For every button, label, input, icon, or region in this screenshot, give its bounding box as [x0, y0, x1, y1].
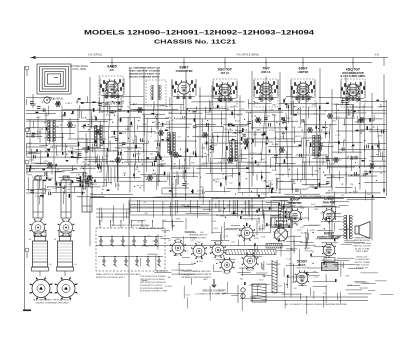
svg-text:33K: 33K — [272, 105, 276, 107]
svg-text:PART S-12763: PART S-12763 — [355, 264, 369, 267]
svg-text:4.7M: 4.7M — [367, 129, 372, 131]
svg-text:C-31: C-31 — [201, 164, 207, 166]
svg-text:R-31: R-31 — [30, 159, 36, 161]
svg-text:CONN. HERE: CONN. HERE — [72, 69, 87, 71]
svg-text:MODELS 12H090–12H091–12H092–12: MODELS 12H090–12H091–12H092–12H093–12H09… — [84, 29, 315, 36]
svg-text:470K: 470K — [117, 154, 123, 156]
svg-text:6.8K: 6.8K — [95, 166, 100, 168]
svg-text:6: 6 — [36, 277, 37, 279]
svg-text:1M: 1M — [256, 165, 259, 167]
svg-text:2.2M: 2.2M — [32, 177, 37, 179]
svg-text:47K: 47K — [345, 275, 349, 277]
svg-text:AVC: AVC — [45, 150, 50, 153]
svg-text:4.7M: 4.7M — [377, 135, 382, 137]
svg-text:R-31: R-31 — [272, 170, 278, 172]
svg-text:47K: 47K — [342, 222, 346, 224]
svg-text:(TOP ROW) FOR 4 PLATES: (TOP ROW) FOR 4 PLATES — [140, 275, 166, 278]
svg-text:(3RD ROW) FOR CATHODE: (3RD ROW) FOR CATHODE — [140, 281, 166, 284]
svg-text:C-12: C-12 — [212, 145, 218, 147]
svg-text:OSC: OSC — [354, 121, 359, 123]
svg-text:OSC: OSC — [269, 110, 274, 112]
svg-text:A.C. LINE: A.C. LINE — [217, 292, 227, 295]
svg-text:1: 1 — [77, 293, 78, 295]
svg-text:SPEAKER FIELD: SPEAKER FIELD — [354, 237, 370, 240]
svg-text:C-31: C-31 — [116, 185, 122, 187]
svg-text:OSC: OSC — [35, 151, 40, 153]
svg-text:6: 6 — [61, 277, 62, 279]
svg-text:R-22: R-22 — [353, 192, 359, 194]
svg-text:(4TH ROW) TO OUTPUT: (4TH ROW) TO OUTPUT — [140, 285, 163, 287]
svg-text:8: 8 — [52, 283, 53, 285]
svg-text:6SQ7: 6SQ7 — [247, 270, 253, 272]
svg-text:CHOKE 1000 OHM: CHOKE 1000 OHM — [353, 243, 371, 245]
svg-text:47K: 47K — [269, 209, 273, 211]
svg-text:6.8K: 6.8K — [276, 193, 281, 195]
svg-text:470K: 470K — [30, 168, 35, 170]
svg-text:6.8K: 6.8K — [174, 255, 179, 257]
svg-text:7: 7 — [70, 277, 71, 279]
svg-text:15K: 15K — [49, 147, 53, 149]
svg-text:33K: 33K — [331, 176, 335, 178]
svg-text:USED AS FILTER: USED AS FILTER — [354, 239, 371, 242]
svg-text:VOL: VOL — [151, 158, 156, 160]
svg-text:455KC: 455KC — [160, 124, 167, 126]
svg-text:455KC: 455KC — [183, 184, 190, 186]
svg-text:47K: 47K — [84, 173, 88, 175]
svg-text:455KC: 455KC — [295, 136, 302, 138]
svg-text:C-12: C-12 — [261, 180, 267, 182]
svg-text:1M: 1M — [194, 156, 197, 158]
svg-text:AVC: AVC — [215, 181, 220, 184]
svg-text:(5TH ROW) B+ BRACKET: (5TH ROW) B+ BRACKET — [140, 287, 164, 290]
svg-text:OSC: OSC — [291, 282, 296, 284]
svg-text:2.2M: 2.2M — [97, 172, 102, 174]
svg-text:10.7MC: 10.7MC — [165, 286, 173, 288]
svg-text:R-22: R-22 — [312, 187, 318, 189]
svg-text:R-31: R-31 — [106, 115, 112, 117]
svg-text:6SH7: 6SH7 — [224, 273, 230, 275]
svg-text:10.7MC: 10.7MC — [197, 136, 205, 138]
svg-text:49-465 12 OHM: 49-465 12 OHM — [355, 248, 370, 250]
svg-text:CHASSIS No. 11C21: CHASSIS No. 11C21 — [154, 39, 236, 45]
svg-text:4: 4 — [54, 293, 55, 295]
svg-text:4.7M: 4.7M — [293, 224, 298, 226]
svg-text:4.7M: 4.7M — [269, 130, 274, 132]
svg-text:5: 5 — [54, 284, 55, 286]
svg-text:A.M.: A.M. — [375, 54, 380, 57]
svg-text:VOL: VOL — [273, 115, 278, 117]
svg-text:15K: 15K — [265, 226, 269, 228]
svg-text:6SQ7GT: 6SQ7GT — [346, 68, 361, 72]
svg-text:470K: 470K — [118, 146, 124, 148]
svg-text:1M: 1M — [266, 140, 269, 142]
svg-text:F.M. DIPOLE AERIAL: F.M. DIPOLE AERIAL — [237, 54, 261, 57]
svg-text:UNLESS OTHERWISE SPECIFIED: UNLESS OTHERWISE SPECIFIED — [36, 302, 69, 304]
svg-text:6SB7: 6SB7 — [180, 66, 189, 70]
svg-text:2.2M: 2.2M — [32, 134, 37, 136]
svg-text:OSC: OSC — [97, 109, 102, 111]
svg-text:470K: 470K — [134, 110, 140, 112]
svg-text:ALL VOLTAGES TO CHASSIS UNLESS: ALL VOLTAGES TO CHASSIS UNLESS OTHERWISE… — [285, 303, 347, 306]
svg-text:6.8K: 6.8K — [181, 205, 186, 207]
svg-text:AVC: AVC — [205, 111, 210, 114]
svg-text:LOOP AERIAL: LOOP AERIAL — [48, 98, 64, 101]
svg-text:15K: 15K — [278, 286, 282, 288]
svg-text:2.2M: 2.2M — [61, 116, 66, 118]
svg-text:15K: 15K — [143, 124, 147, 126]
svg-text:6.8K: 6.8K — [125, 129, 130, 131]
svg-text:2.2M: 2.2M — [313, 209, 318, 211]
svg-text:L.S.: L.S. — [39, 287, 44, 291]
svg-text:2.2M: 2.2M — [140, 141, 145, 143]
svg-text:7W7: 7W7 — [262, 67, 269, 71]
svg-text:2.2M: 2.2M — [347, 285, 352, 287]
svg-text:1ST I.F.: 1ST I.F. — [220, 71, 230, 75]
svg-text:C-12: C-12 — [325, 193, 331, 195]
svg-text:AVC: AVC — [102, 185, 107, 188]
svg-text:6.8K: 6.8K — [152, 173, 157, 175]
svg-text:1M: 1M — [350, 184, 353, 186]
svg-text:15K: 15K — [206, 150, 210, 152]
svg-text:R-31: R-31 — [92, 184, 98, 186]
svg-text:15K: 15K — [191, 163, 195, 165]
svg-text:15K: 15K — [70, 147, 74, 149]
svg-text:33K: 33K — [157, 165, 161, 167]
svg-text:33K: 33K — [287, 118, 291, 120]
svg-text:C-12: C-12 — [90, 126, 96, 128]
svg-text:4.7M: 4.7M — [279, 174, 284, 176]
svg-text:RESISTOR FOR FRONT END 1: RESISTOR FOR FRONT END 1 — [96, 277, 126, 279]
svg-text:470K: 470K — [176, 219, 181, 221]
svg-text:470K: 470K — [332, 104, 338, 106]
svg-text:(6TH ROW) CONTROL TONE: (6TH ROW) CONTROL TONE — [140, 291, 168, 293]
svg-text:455KC: 455KC — [329, 244, 336, 246]
svg-text:MEASURED WITH VOLTOHMYST TO CH: MEASURED WITH VOLTOHMYST TO CH — [129, 73, 160, 76]
svg-text:470K: 470K — [295, 110, 301, 112]
svg-text:INVERTER: INVERTER — [288, 201, 301, 205]
svg-text:10.7MC: 10.7MC — [213, 179, 221, 181]
svg-text:R-22: R-22 — [132, 140, 138, 142]
svg-text:10.7MC: 10.7MC — [241, 126, 249, 128]
svg-text:OUTPUT TRANS: OUTPUT TRANS — [354, 261, 370, 264]
svg-text:R-31: R-31 — [136, 153, 142, 155]
svg-text:OSC: OSC — [314, 170, 319, 172]
svg-text:CONVERTER: CONVERTER — [176, 69, 193, 73]
svg-text:2.2M: 2.2M — [268, 184, 273, 186]
svg-text:& 1ST AUDIO AMPL: & 1ST AUDIO AMPL — [340, 74, 366, 78]
svg-text:455KC: 455KC — [165, 117, 172, 119]
svg-text:C-31: C-31 — [169, 120, 175, 122]
svg-text:R-31: R-31 — [164, 157, 170, 159]
svg-text:455KC: 455KC — [47, 178, 54, 180]
svg-text:C-12: C-12 — [79, 138, 85, 140]
svg-text:4: 4 — [29, 293, 30, 295]
svg-text:15K: 15K — [123, 173, 127, 175]
svg-text:L.S.: L.S. — [64, 287, 69, 291]
svg-text:47K: 47K — [309, 251, 313, 253]
svg-text:5: 5 — [29, 284, 30, 286]
svg-text:C-12: C-12 — [261, 194, 267, 196]
svg-text:OSC: OSC — [256, 154, 261, 156]
svg-text:C-31: C-31 — [247, 163, 253, 165]
svg-text:OSC: OSC — [272, 293, 277, 295]
svg-text:OSC: OSC — [299, 206, 304, 208]
svg-text:TO AVOID DAMAGE USE ONLY: TO AVOID DAMAGE USE ONLY — [181, 270, 212, 273]
svg-text:AVC: AVC — [204, 278, 209, 281]
svg-text:A: 6V6GT P.P.: A: 6V6GT P.P. — [356, 266, 369, 269]
svg-text:R-22: R-22 — [37, 131, 43, 133]
svg-text:33K: 33K — [227, 205, 231, 207]
svg-text:AVC: AVC — [235, 129, 240, 132]
svg-text:33K: 33K — [113, 150, 117, 152]
svg-text:OSC: OSC — [171, 166, 176, 168]
svg-text:C-31: C-31 — [263, 109, 269, 111]
svg-text:OUTSIDE AERIAL: OUTSIDE AERIAL — [70, 65, 90, 68]
svg-text:10.7MC: 10.7MC — [119, 143, 127, 145]
svg-text:33K: 33K — [313, 271, 317, 273]
svg-text:47K: 47K — [144, 213, 148, 215]
svg-text:FIELD 1 AMP: FIELD 1 AMP — [356, 250, 369, 253]
svg-text:ALL CONDENSER TYPE ELECTROLYT: ALL CONDENSER TYPE ELECTROLYT — [33, 299, 71, 302]
svg-text:TO 117V: TO 117V — [218, 290, 227, 292]
svg-text:455KC: 455KC — [237, 235, 244, 237]
svg-text:6SC7GT: 6SC7GT — [218, 68, 233, 72]
svg-text:OSC: OSC — [260, 159, 265, 161]
svg-text:15K: 15K — [43, 138, 47, 140]
svg-text:C-12: C-12 — [335, 135, 341, 137]
svg-text:6.8K: 6.8K — [118, 120, 123, 122]
svg-text:OSC: OSC — [359, 131, 364, 133]
svg-text:ALL CONDENSERS IN CAPACITY LES: ALL CONDENSERS IN CAPACITY LESS — [129, 67, 160, 70]
svg-text:(2ND ROW) FOR SCREEN: (2ND ROW) FOR SCREEN — [140, 279, 165, 281]
svg-text:8: 8 — [77, 283, 78, 285]
svg-text:455KC: 455KC — [220, 216, 227, 218]
svg-text:2.2M: 2.2M — [54, 126, 59, 128]
svg-text:AVC: AVC — [81, 165, 86, 168]
svg-text:33K: 33K — [291, 249, 295, 251]
svg-text:1M: 1M — [160, 134, 163, 136]
svg-text:33K: 33K — [367, 194, 371, 196]
svg-text:2.2M: 2.2M — [227, 175, 232, 177]
svg-text:6.8K: 6.8K — [76, 174, 81, 176]
svg-text:TERMINAL SIDE OF: TERMINAL SIDE OF — [189, 234, 208, 237]
svg-text:VOICE COIL: VOICE COIL — [356, 257, 368, 259]
svg-text:LIMITER: LIMITER — [298, 70, 309, 74]
svg-text:SMALL DEPTH OF THERM AT END (T: SMALL DEPTH OF THERM AT END (TIN PLATE) — [96, 273, 141, 276]
svg-text:OSC: OSC — [44, 161, 49, 163]
svg-text:R.F.: R.F. — [110, 68, 115, 72]
svg-text:33K: 33K — [292, 183, 296, 185]
svg-text:470K: 470K — [286, 224, 291, 226]
svg-text:470K: 470K — [310, 230, 315, 232]
svg-text:6.8K: 6.8K — [261, 237, 266, 239]
svg-text:R-22: R-22 — [302, 162, 308, 164]
svg-text:6SH7: 6SH7 — [299, 67, 308, 71]
svg-text:4.7M: 4.7M — [161, 105, 166, 107]
svg-text:6.8K: 6.8K — [141, 160, 146, 162]
svg-text:4.7M: 4.7M — [249, 285, 254, 287]
svg-text:470K: 470K — [232, 133, 238, 135]
svg-text:6.8K: 6.8K — [297, 127, 302, 129]
svg-text:OSC: OSC — [213, 228, 218, 230]
svg-text:455KC: 455KC — [304, 248, 311, 250]
svg-text:470K: 470K — [254, 238, 259, 240]
svg-text:1M: 1M — [150, 153, 153, 155]
svg-text:PWR AMP: PWR AMP — [323, 200, 336, 204]
svg-text:VOL: VOL — [205, 126, 210, 128]
svg-text:C-12: C-12 — [354, 157, 360, 159]
svg-text:7: 7 — [45, 277, 46, 279]
svg-text:10.7MC: 10.7MC — [300, 233, 308, 235]
svg-text:PART No. S-12764: PART No. S-12764 — [354, 245, 372, 248]
svg-text:1: 1 — [52, 293, 53, 295]
svg-text:1M: 1M — [161, 160, 164, 162]
svg-text:VOL: VOL — [243, 130, 248, 132]
svg-text:OSC: OSC — [255, 102, 260, 104]
svg-text:C-31: C-31 — [167, 152, 173, 154]
svg-text:2.2M: 2.2M — [231, 157, 236, 159]
svg-text:A.M. DIPOLE: A.M. DIPOLE — [88, 54, 103, 57]
svg-text:10.7MC: 10.7MC — [249, 153, 257, 155]
svg-text:R-22: R-22 — [235, 120, 241, 122]
svg-text:AVC: AVC — [317, 134, 322, 137]
svg-text:4.7M: 4.7M — [197, 191, 202, 193]
svg-text:C-31: C-31 — [377, 106, 383, 108]
svg-text:THAN 1 ARE IN MF. VOLTAGES: THAN 1 ARE IN MF. VOLTAGES — [129, 70, 161, 73]
svg-text:UNLESS OTHERWISE NOTED.: UNLESS OTHERWISE NOTED. — [129, 76, 160, 78]
svg-text:6AB5: 6AB5 — [107, 65, 116, 69]
svg-text:2ND I.F.: 2ND I.F. — [261, 70, 271, 74]
svg-text:R-31: R-31 — [108, 137, 114, 139]
svg-text:3.2 OHM 49-465: 3.2 OHM 49-465 — [355, 259, 371, 261]
svg-text:R-31: R-31 — [331, 164, 337, 166]
svg-text:470K: 470K — [28, 175, 33, 177]
svg-text:1M: 1M — [82, 161, 85, 163]
svg-text:C-12: C-12 — [337, 160, 343, 162]
